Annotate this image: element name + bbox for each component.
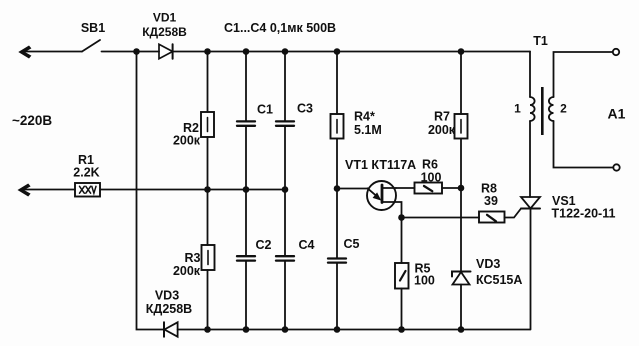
junction node E (R4 / emitter / C5)	[334, 185, 341, 192]
node left terminal top arrow	[18, 46, 31, 59]
junction bottom rail / R3	[204, 326, 211, 333]
resistor R7 200к	[455, 52, 468, 189]
resistor R4* 5.1M	[331, 52, 344, 258]
junction node F (R6 / R7 column)	[458, 185, 465, 192]
thyristor VS1 Т122-20-11	[521, 197, 540, 330]
svg-text:SB1: SB1	[81, 21, 105, 35]
svg-text:C2: C2	[256, 238, 272, 252]
diode VD1 КД258В	[159, 44, 173, 58]
wire R7 column down to zener	[460, 188, 462, 271]
svg-text:R3: R3	[185, 251, 201, 265]
svg-text:1: 1	[514, 102, 521, 116]
wire left lead to SB1	[24, 51, 82, 53]
resistor R8 39	[479, 212, 505, 223]
node left terminal middle arrow	[18, 184, 31, 197]
svg-text:VD1: VD1	[153, 11, 177, 25]
junction bottom rail / C2	[243, 326, 250, 333]
resistor R5 100	[395, 218, 409, 330]
wire gate run from node B1 to R8	[402, 217, 480, 219]
transformer T1 core	[541, 87, 544, 135]
junction node A (top rail / left branch)	[133, 48, 140, 55]
svg-text:C1...C4 0,1мк 500В: C1...C4 0,1мк 500В	[224, 21, 336, 35]
capacitor C4	[276, 190, 294, 330]
junction mid rail / R2-R3	[204, 186, 211, 193]
transformer T1 secondary winding 2	[549, 97, 554, 121]
svg-text:200к: 200к	[428, 123, 456, 137]
junction node B1 (gate wire / R5)	[398, 214, 405, 221]
transformer T1 primary winding 1	[530, 52, 535, 198]
svg-text:C1: C1	[257, 103, 273, 117]
svg-text:A1: A1	[608, 106, 626, 122]
capacitor C1	[237, 52, 255, 190]
wire middle rail R1 to C3 column	[100, 189, 285, 191]
svg-text:C3: C3	[297, 102, 313, 116]
wire top rail VD1 to transformer	[173, 51, 530, 53]
svg-text:C4: C4	[299, 238, 315, 252]
wire secondary top lead to terminal	[554, 52, 613, 97]
svg-text:R6: R6	[422, 158, 438, 172]
svg-text:VT1 КТ117А: VT1 КТ117А	[345, 158, 416, 172]
svg-text:R4*: R4*	[354, 110, 375, 124]
wire R8 to thyristor gate	[505, 209, 522, 218]
wire left lead to R1	[24, 189, 76, 191]
svg-text:R7: R7	[434, 110, 450, 124]
svg-text:100: 100	[414, 274, 435, 288]
capacitor C2	[237, 190, 255, 330]
svg-text:VD3: VD3	[155, 289, 179, 303]
svg-text:100: 100	[421, 171, 442, 185]
switch SB1	[82, 40, 100, 52]
svg-text:~220В: ~220В	[12, 113, 52, 128]
node output terminal top	[613, 49, 619, 55]
capacitor C3	[276, 52, 294, 190]
junction bottom rail / C4	[282, 326, 289, 333]
junction bottom rail / VD3 zener	[458, 326, 465, 333]
svg-text:C5: C5	[344, 237, 360, 251]
svg-text:2.2K: 2.2K	[73, 166, 99, 180]
resistor R6 100	[396, 183, 461, 194]
diode VD3 КД258В (bottom left)	[164, 322, 178, 336]
junction top rail / C1	[243, 48, 250, 55]
wire emitter lead	[337, 188, 368, 190]
junction mid rail / C1-C2	[243, 186, 250, 193]
svg-text:КС515А: КС515А	[476, 273, 522, 287]
junction bottom rail / R5	[398, 326, 405, 333]
capacitor C5	[328, 259, 346, 330]
svg-text:VD3: VD3	[476, 257, 500, 271]
junction top rail / R2	[204, 48, 211, 55]
svg-text:КД258В: КД258В	[146, 302, 192, 316]
junction mid rail / C3-C4	[282, 186, 289, 193]
resistor R3 200к	[202, 190, 215, 330]
node output terminal bottom	[613, 164, 619, 170]
wire SB1 to node A	[102, 51, 137, 53]
svg-text:Т122-20-11: Т122-20-11	[552, 207, 616, 221]
zener diode VD3 КС515А	[452, 272, 471, 330]
wire secondary bottom lead to terminal	[554, 121, 614, 168]
svg-text:200к: 200к	[173, 134, 201, 148]
junction bottom rail / C5	[334, 326, 341, 333]
svg-text:200к: 200к	[173, 264, 201, 278]
svg-text:39: 39	[484, 194, 498, 208]
resistor R1 2.2K	[75, 183, 100, 197]
wire left branch vertical (node A down to bottom rail)	[137, 52, 165, 330]
junction top rail / R7	[458, 48, 465, 55]
wire bottom rail	[178, 329, 530, 331]
resistor R2 200к	[201, 52, 214, 190]
junction top rail / C3	[282, 48, 289, 55]
junction top rail / R4	[334, 48, 341, 55]
svg-text:T1: T1	[533, 34, 548, 48]
transistor VT1 КТ117А	[367, 181, 402, 218]
svg-text:5.1M: 5.1M	[354, 123, 382, 137]
svg-text:КД258В: КД258В	[142, 25, 187, 39]
svg-text:2: 2	[560, 102, 567, 116]
wire node A to VD1 anode	[137, 51, 160, 53]
